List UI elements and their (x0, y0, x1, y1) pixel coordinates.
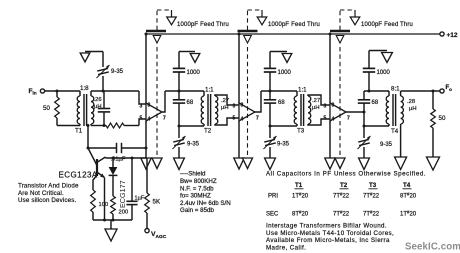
svg-text:7: 7 (347, 116, 350, 122)
+12 supply rail (145, 33, 440, 36)
wire Q1 collector rail (106, 157, 148, 160)
wire input bottom (57, 125, 80, 127)
wire tank2 bottom (178, 125, 205, 128)
ground (U2) (234, 158, 244, 169)
wire tank3 bottom (269, 125, 298, 128)
svg-text:4: 4 (332, 117, 335, 123)
resistor 5K (AGC) (145, 158, 161, 228)
trimmer capacitor 9-35 (tank 2) (173, 126, 200, 158)
svg-text:68: 68 (372, 100, 379, 106)
capacitor 68 (tank 3) (264, 91, 286, 126)
svg-text:1µF: 1µF (135, 196, 145, 202)
trimmer capacitor 9-35 (tank 4) (358, 126, 393, 158)
transistor Q1 ECG123A (59, 157, 106, 180)
svg-text:Bw= 800KHZ: Bw= 800KHZ (180, 178, 217, 185)
wire T1 bottom to Q1 base (87, 124, 98, 166)
ground (U3) (325, 158, 335, 169)
resistor 50 (output load) (431, 91, 446, 157)
wire tank4 bottom (363, 125, 390, 128)
feed-thru capacitor 1000pF (stage 3) (340, 10, 413, 30)
svg-text:Use silicon Devices.: Use silicon Devices. (18, 197, 76, 204)
svg-text:4: 4 (148, 117, 151, 123)
ground (tank 3) (265, 158, 276, 170)
svg-text:8: 8 (241, 103, 244, 109)
ground (output load) (427, 157, 440, 170)
wire Q1 bottom (93, 219, 132, 230)
wire input to T1 primary (45, 90, 80, 93)
svg-text:1000pF Feed Thru: 1000pF Feed Thru (177, 22, 229, 28)
op-amp U1 (IF amplifier stage 1) (140, 103, 167, 123)
feed-thru plate bar 1 (146, 30, 166, 33)
svg-text:T3: T3 (369, 182, 377, 189)
svg-text:µH: µH (312, 105, 320, 111)
svg-text:Interstage Transformers Bifila: Interstage Transformers Bifilar Wound. (266, 223, 387, 230)
svg-text:3: 3 (324, 104, 327, 110)
ground (bypass 2) (282, 54, 292, 63)
terminal VAGC (145, 229, 167, 241)
svg-text:T2: T2 (340, 182, 348, 189)
ground (shield wall 2) (243, 158, 253, 169)
svg-text:9-35: 9-35 (111, 69, 124, 75)
ground (bypass 1) (190, 54, 200, 63)
U3 ground lead (329, 121, 331, 158)
svg-text:1000: 1000 (377, 70, 391, 76)
svg-text:T4: T4 (403, 182, 411, 189)
shield wall 1 (dashed) (153, 36, 161, 158)
svg-text:1000pF Feed Thru: 1000pF Feed Thru (361, 22, 413, 28)
transformer T4 8:1 (386, 86, 416, 158)
svg-text:3: 3 (233, 104, 236, 110)
svg-text:9-35: 9-35 (187, 142, 200, 148)
svg-text:1:8: 1:8 (80, 85, 89, 92)
svg-text:T3: T3 (297, 128, 305, 135)
output terminal Fo (440, 85, 452, 93)
svg-text:N.F. = 7.5db: N.F. = 7.5db (180, 185, 214, 192)
svg-text:ECG177: ECG177 (118, 180, 127, 208)
op-amp U2 (IF amplifier stage 2) (233, 103, 260, 123)
svg-text:Gain = 85db: Gain = 85db (180, 207, 214, 214)
svg-text:5: 5 (324, 116, 327, 122)
svg-text:2.4uv IN= 6db S/N: 2.4uv IN= 6db S/N (180, 200, 231, 207)
capacitor 68 (tank 4) (358, 91, 379, 126)
svg-text:200: 200 (119, 210, 129, 216)
ground (shield wall 3) (335, 158, 345, 169)
svg-text:7: 7 (163, 116, 166, 122)
wire T1 secondary top (tank 1) (91, 90, 139, 93)
trimmer capacitor 9-35 (tank 3) (264, 126, 290, 158)
svg-text:9-35: 9-35 (277, 142, 290, 148)
svg-text:1000: 1000 (187, 70, 201, 76)
svg-text:100: 100 (99, 202, 109, 208)
trimmer capacitor 9-35 (input tank) (85, 52, 124, 92)
svg-text:3: 3 (140, 104, 143, 110)
shield wall 2 (dashed) (244, 36, 252, 158)
wire tank3 top (261, 90, 297, 93)
input terminal Fin (29, 88, 45, 96)
svg-text:Available From Micro-Metals, I: Available From Micro-Metals, Inc Sierra (266, 237, 390, 244)
svg-text:.27: .27 (221, 98, 229, 104)
svg-text:7: 7 (256, 116, 259, 122)
resistor 200 (111, 196, 128, 220)
svg-text:Transistor And Diode: Transistor And Diode (18, 183, 79, 190)
wire U2 output jog up (255, 91, 261, 112)
U2 ground lead (238, 121, 240, 158)
svg-text:1000pF Feed Thru: 1000pF Feed Thru (268, 22, 320, 28)
transformer T3 1:1 (294, 87, 330, 135)
svg-text:T1: T1 (75, 128, 83, 135)
feed-thru capacitor 1000pF (stage 2) (248, 10, 321, 30)
wire tank4 top (364, 90, 389, 93)
svg-text:PRI: PRI (268, 194, 278, 200)
svg-text:All Capacitors In PF Unless Ot: All Capacitors In PF Unless Otherwise Sp… (266, 171, 426, 178)
+12 terminal (440, 32, 458, 39)
svg-text:5: 5 (140, 116, 143, 122)
transformer winding table (266, 182, 417, 218)
svg-text:.26: .26 (94, 97, 102, 103)
wire tank1 to amp1 input (139, 91, 146, 104)
svg-text:T2: T2 (204, 128, 212, 135)
svg-text:+12: +12 (447, 32, 458, 39)
ground (shield wall 1) (152, 158, 162, 169)
wire T1 secondary bottom with series resistor (91, 119, 146, 128)
op-amp U3 (IF amplifier stage 3) (324, 103, 351, 123)
note text transistor (18, 183, 79, 205)
ground (tank 4) (359, 158, 370, 170)
svg-text:µH: µH (221, 105, 229, 111)
resistor 50 (input termination) (43, 91, 59, 126)
diode D1 ECG177 (109, 158, 118, 196)
svg-text:1:1: 1:1 (205, 87, 214, 94)
svg-text:.28: .28 (407, 99, 415, 105)
shield wall 3 (dashed) (336, 36, 344, 158)
ground (tank 2) (174, 158, 185, 170)
svg-text:T4: T4 (391, 128, 399, 135)
svg-text:Fo: Fo (446, 85, 453, 92)
ground (Q1 emitter) (105, 229, 117, 241)
svg-text:ECG123A: ECG123A (59, 171, 98, 180)
svg-text:Madre, Calif.: Madre, Calif. (266, 244, 306, 251)
svg-text:4: 4 (241, 117, 244, 123)
svg-text:.27: .27 (312, 98, 320, 104)
ground (bypass 3) (382, 53, 393, 63)
feed-thru plate bar 3 (330, 30, 350, 33)
note text shield and specs (180, 171, 231, 215)
U1 ground lead (145, 121, 147, 158)
svg-text:fo= 30MHZ: fo= 30MHZ (180, 193, 211, 200)
svg-text:µH: µH (409, 106, 417, 112)
svg-text:1:1: 1:1 (298, 87, 307, 94)
svg-text:50: 50 (43, 105, 50, 112)
capacitor 1uF (AGC filter) (126, 158, 144, 220)
wire Q1 emitter down (104, 178, 106, 221)
resistor 100 (emitter) (91, 175, 108, 220)
capacitor (input tank, fixed) (98, 91, 110, 127)
supply drop to U1 pin 8 (145, 34, 147, 103)
svg-text:5K: 5K (153, 199, 161, 206)
feed-thru plate bar 2 (238, 30, 258, 33)
svg-text:Use Micro-Metals T44-10 Toroid: Use Micro-Metals T44-10 Toroidal Cores, (266, 230, 394, 237)
capacitor .01uF (feedback) (88, 143, 148, 163)
svg-text:8: 8 (332, 103, 335, 109)
note text transformers (266, 223, 394, 252)
wire output (401, 90, 440, 93)
svg-text:T1: T1 (295, 182, 303, 189)
feed-thru capacitor 1000pF (stage 1) (157, 10, 229, 30)
supply drop to U3 pin 8 (329, 34, 331, 103)
svg-text:----Shield: ----Shield (180, 171, 206, 178)
ground (input trimmer) (80, 53, 90, 62)
ground (T4 secondary) (395, 157, 407, 170)
svg-text:SEC: SEC (266, 212, 279, 218)
transformer T2 1:1 (201, 87, 239, 135)
capacitor 1000 (bypass stage 1) (173, 52, 201, 92)
wire U1 output jog up (162, 91, 165, 112)
svg-text:SeekIC.com: SeekIC.com (405, 242, 460, 253)
ground (U1) (141, 158, 151, 169)
wire tank2 top (165, 90, 204, 93)
capacitor 1000 (bypass stage 2) (264, 52, 292, 92)
svg-text:9-35: 9-35 (380, 142, 393, 148)
svg-text:68: 68 (187, 100, 194, 106)
svg-text:Are Not Critical.: Are Not Critical. (18, 190, 64, 197)
svg-text:8: 8 (148, 103, 151, 109)
capacitor 1000 (bypass stage 3) (363, 51, 391, 92)
svg-text:8:1: 8:1 (391, 86, 400, 93)
svg-text:68: 68 (278, 100, 285, 106)
svg-text:5: 5 (233, 116, 236, 122)
capacitor 68 (tank 2) (173, 91, 194, 126)
wire U3 output (346, 111, 366, 114)
supply drop to U2 pin 8 (238, 34, 240, 103)
transformer T1 1:8 (75, 85, 102, 135)
svg-text:50: 50 (439, 115, 446, 122)
svg-text:1000: 1000 (278, 70, 292, 76)
